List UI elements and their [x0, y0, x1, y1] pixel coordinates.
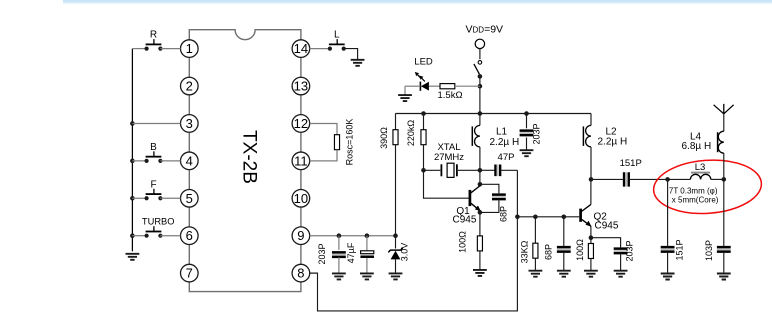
- resistor 1.5kΩ: [440, 84, 455, 89]
- junction: [478, 210, 483, 215]
- label 100Ω: [458, 231, 468, 253]
- svg-text:7T 0.3mm (φ): 7T 0.3mm (φ): [669, 187, 718, 196]
- svg-text:151P: 151P: [675, 239, 685, 260]
- wire Rosc to pin 11: [310, 150, 337, 161]
- transistor Q2 C945: [581, 204, 592, 226]
- junction: [524, 111, 529, 116]
- svg-text:14: 14: [294, 41, 308, 56]
- wire key TURBO to pin 6: [160, 235, 180, 237]
- capacitor 47µF electrolytic: [360, 251, 374, 257]
- label C945 (Q1): [453, 214, 477, 225]
- pushbutton TURBO: [142, 217, 175, 238]
- capacitor 203P (pin9): [332, 252, 346, 257]
- wire: [563, 217, 565, 247]
- wire: [620, 253, 622, 270]
- label 203P: [317, 243, 327, 264]
- wire: [479, 251, 481, 270]
- capacitor 151P (coupling): [624, 172, 629, 186]
- label 6.8µH: [682, 141, 712, 152]
- svg-text:LED: LED: [414, 56, 433, 67]
- capacitor 151P (shunt): [661, 247, 675, 252]
- wire: [423, 114, 425, 130]
- svg-text:100Ω: 100Ω: [575, 239, 585, 261]
- ground (151P): [661, 274, 675, 280]
- ground (203P Q2): [614, 271, 628, 277]
- label 203P: [532, 123, 542, 144]
- svg-text:L3: L3: [695, 162, 706, 173]
- label 68P: [544, 244, 554, 260]
- LED D1: [415, 72, 429, 91]
- junction: [533, 215, 538, 220]
- resistor Rosc=160K: [334, 135, 339, 150]
- wire: [479, 147, 481, 170]
- zener diode 3.0V: [388, 248, 402, 273]
- svg-text:10: 10: [294, 191, 308, 206]
- ground (Q2 emitter): [584, 271, 598, 277]
- svg-text:1.5kΩ: 1.5kΩ: [438, 90, 463, 101]
- label 2.2µH: [490, 137, 520, 148]
- wire collector node: [479, 170, 481, 184]
- wire: [590, 259, 592, 271]
- wire: [479, 114, 481, 126]
- ground (Q1 emitter): [473, 270, 487, 276]
- label XTAL: [437, 142, 460, 153]
- label 220kΩ: [406, 120, 416, 147]
- svg-text:103P: 103P: [704, 240, 714, 261]
- wire: [723, 114, 725, 131]
- svg-text:220kΩ: 220kΩ: [406, 120, 416, 147]
- junction: [478, 182, 483, 187]
- wire: [668, 178, 691, 180]
- IC U1 TX-2B body outline with pin-1 notch: [189, 30, 301, 292]
- junction: [365, 233, 370, 238]
- resistor 390Ω: [393, 130, 398, 145]
- inductor L3: [690, 173, 710, 180]
- label 390Ω: [379, 127, 389, 149]
- wire key F to pin 5: [160, 197, 180, 199]
- resistor 100Ω (Q1): [477, 236, 482, 251]
- label LED: [414, 56, 433, 67]
- junction: [421, 168, 426, 173]
- wire: [534, 217, 536, 243]
- svg-text:Rosc=160K: Rosc=160K: [345, 119, 355, 166]
- svg-text:12: 12: [294, 116, 308, 131]
- wire Q2 emitter: [590, 226, 592, 238]
- junction: [130, 233, 135, 238]
- ground (LED): [398, 95, 412, 101]
- wire pin 8 to oscillator node: [310, 170, 518, 311]
- wire: [479, 49, 481, 60]
- junction: [130, 159, 135, 164]
- wire: [480, 169, 496, 171]
- capacitor 68P (Q2 base): [557, 247, 571, 252]
- svg-text:47µF: 47µF: [346, 242, 356, 263]
- label 68P: [499, 206, 509, 222]
- label Q1: [456, 206, 470, 217]
- ground (103P): [717, 274, 731, 280]
- label L1: [496, 127, 508, 138]
- svg-text:203P: 203P: [317, 243, 327, 264]
- wire bus to pin 3: [132, 122, 180, 124]
- wire: [500, 169, 517, 171]
- junction: [478, 168, 483, 173]
- junction: [130, 196, 135, 201]
- IC pin 5: [181, 189, 199, 207]
- wire: [723, 179, 725, 247]
- IC label TX-2B: [239, 130, 260, 184]
- wire pin 12 to Rosc: [310, 123, 337, 134]
- svg-text:TURBO: TURBO: [142, 217, 175, 227]
- wire Q2 collector: [590, 179, 592, 204]
- svg-text:TX-2B: TX-2B: [239, 130, 260, 184]
- capacitor 203P (rail): [520, 131, 534, 136]
- wire pin 9 node: [310, 235, 396, 237]
- svg-text:C945: C945: [595, 220, 619, 231]
- label 1.5kΩ: [438, 90, 463, 101]
- svg-text:6: 6: [186, 228, 193, 243]
- pushbutton F: [145, 179, 163, 200]
- wire: [711, 178, 724, 180]
- capacitor 47P: [495, 165, 500, 177]
- label Q2: [594, 212, 608, 223]
- junction: [478, 84, 483, 89]
- svg-text:3: 3: [186, 116, 193, 131]
- capacitor 103P: [717, 247, 731, 252]
- wire bus to key TURBO: [132, 235, 146, 237]
- label L4: [690, 131, 702, 142]
- svg-text:7: 7: [186, 266, 193, 281]
- capacitor 203P (Q2): [614, 249, 628, 254]
- svg-text:27MHz: 27MHz: [434, 152, 464, 163]
- resistor 220kΩ: [421, 130, 426, 145]
- wire XTAL node to Q1 base: [424, 170, 469, 198]
- ground (68P Q2): [557, 271, 571, 277]
- wire: [526, 114, 528, 129]
- wire: [534, 258, 536, 270]
- junction: [515, 215, 520, 220]
- capacitor 68P (Q1): [492, 195, 506, 200]
- junction: [130, 121, 135, 126]
- IC pin 8: [292, 264, 310, 282]
- wire resistor to VDD line: [455, 85, 480, 87]
- IC pin 3: [181, 115, 199, 133]
- wire LED anode: [429, 85, 440, 87]
- svg-text:3.0V: 3.0V: [400, 243, 410, 262]
- inductor L2 2.2µH: [583, 125, 591, 146]
- svg-text:203P: 203P: [532, 123, 542, 144]
- label VDD=9V: [466, 24, 504, 36]
- IC pin 2: [181, 77, 199, 95]
- key common bus wire: [131, 49, 133, 252]
- wire key R to pin 1: [160, 48, 180, 50]
- wire rail corner to L2: [590, 114, 592, 126]
- svg-text:11: 11: [294, 153, 308, 168]
- wire key L to ground: [344, 49, 358, 60]
- wire: [423, 145, 425, 171]
- wire LED cathode to ground: [405, 86, 420, 95]
- pushbutton B: [145, 142, 163, 163]
- wire: [395, 114, 397, 130]
- svg-text:8: 8: [297, 266, 304, 281]
- wire: [667, 179, 669, 247]
- svg-text:68P: 68P: [544, 244, 554, 260]
- inductor L4 6.8µH: [718, 131, 724, 153]
- label 33KΩ: [520, 240, 530, 263]
- wire: [366, 236, 368, 251]
- svg-text:151P: 151P: [620, 158, 642, 169]
- wire switch to rail: [479, 76, 481, 113]
- ground (zener): [389, 273, 403, 279]
- pushbutton R: [145, 30, 163, 51]
- IC pin 14: [292, 40, 310, 58]
- wire base branch: [517, 216, 579, 218]
- ground (203P pin9): [332, 273, 346, 279]
- svg-text:47P: 47P: [498, 152, 515, 163]
- svg-text:100Ω: 100Ω: [458, 231, 468, 253]
- label 203P: [625, 240, 635, 261]
- svg-text:13: 13: [294, 79, 308, 94]
- svg-text:x 5mm(Core): x 5mm(Core): [672, 195, 719, 204]
- wire emitter node: [479, 211, 481, 213]
- wire pin 14 to key L: [310, 48, 330, 50]
- svg-text:1: 1: [186, 41, 193, 56]
- wire: [723, 252, 725, 273]
- svg-text:5: 5: [186, 191, 193, 206]
- pushbutton L: [328, 30, 346, 51]
- label L2: [606, 126, 618, 137]
- wire: [479, 212, 481, 236]
- svg-text:390Ω: 390Ω: [379, 127, 389, 149]
- annotation ellipse (red): [652, 157, 763, 217]
- wire: [563, 252, 565, 271]
- resistor 33KΩ: [533, 243, 538, 258]
- inductor L1 2.2µH: [472, 125, 480, 146]
- label 27MHz: [434, 152, 464, 163]
- label 7T 0.3mm (Φ): [669, 187, 718, 196]
- wire: [630, 178, 668, 180]
- wire: [395, 236, 397, 249]
- label 151P: [675, 239, 685, 260]
- wire bus to key B: [132, 160, 146, 162]
- label 3.0V: [400, 243, 410, 262]
- svg-text:9: 9: [297, 228, 304, 243]
- junction: [665, 177, 670, 182]
- wire key B to pin 4: [160, 160, 180, 162]
- IC pin 11: [292, 152, 310, 170]
- label 47P: [498, 152, 515, 163]
- wire: [591, 178, 623, 180]
- wire: [590, 238, 592, 244]
- power switch: [474, 61, 482, 79]
- IC pin 10: [292, 189, 310, 207]
- svg-text:C945: C945: [453, 214, 477, 225]
- svg-text:VDD=9V: VDD=9V: [466, 24, 504, 36]
- junction: [722, 177, 727, 182]
- svg-text:B: B: [150, 142, 157, 153]
- label 151P: [620, 158, 642, 169]
- wire bus to key R: [132, 48, 146, 50]
- IC pin 4: [181, 152, 199, 170]
- wire: [667, 252, 669, 273]
- svg-text:4: 4: [186, 153, 193, 168]
- label Rosc=160K: [345, 119, 355, 166]
- antenna: [714, 104, 734, 114]
- wire: [723, 153, 725, 179]
- svg-text:33KΩ: 33KΩ: [520, 240, 530, 263]
- ground (47µF): [360, 273, 374, 279]
- svg-text:2: 2: [186, 79, 193, 94]
- VDD rail wire: [396, 113, 592, 115]
- svg-text:2.2µ H: 2.2µ H: [490, 137, 520, 148]
- wire: [395, 145, 397, 236]
- ground (33K): [529, 271, 543, 277]
- IC pin 7: [181, 264, 199, 282]
- svg-text:6.8µ H: 6.8µ H: [682, 141, 712, 152]
- junction: [589, 177, 594, 182]
- wire: [366, 258, 368, 273]
- label 47µF: [346, 242, 356, 263]
- label 2.2µH: [598, 137, 628, 148]
- wire: [526, 138, 528, 151]
- IC pin 6: [181, 227, 199, 245]
- wire: [480, 201, 499, 213]
- junction: [589, 235, 594, 240]
- junction: [337, 233, 342, 238]
- crystal XTAL 27MHz: [424, 163, 480, 177]
- label L3: [695, 162, 706, 173]
- label C945 (Q2): [595, 220, 619, 231]
- transistor Q1 C945: [470, 186, 481, 212]
- wire: [480, 184, 499, 193]
- junction: [393, 233, 398, 238]
- IC pin 13: [292, 77, 310, 95]
- IC pin 12: [292, 115, 310, 133]
- svg-text:203P: 203P: [625, 240, 635, 261]
- IC pin 9: [292, 227, 310, 245]
- wire: [338, 257, 340, 273]
- wire bus to key F: [132, 197, 146, 199]
- wire: [590, 147, 592, 180]
- label 100Ω: [575, 239, 585, 261]
- wire: [591, 238, 621, 248]
- junction: [478, 111, 483, 116]
- svg-text:L: L: [334, 30, 340, 41]
- ground (key L): [351, 60, 365, 66]
- svg-text:2.2µ H: 2.2µ H: [598, 137, 628, 148]
- terminal VDD: [475, 39, 484, 48]
- label 103P: [704, 240, 714, 261]
- svg-text:68P: 68P: [499, 206, 509, 222]
- svg-text:R: R: [150, 30, 157, 41]
- label x 5mm(Core): [672, 195, 719, 204]
- IC pin 1: [181, 40, 199, 58]
- ground (203P rail): [520, 150, 534, 156]
- junction: [562, 215, 567, 220]
- junction: [421, 111, 426, 116]
- wire: [338, 236, 340, 250]
- svg-text:F: F: [150, 179, 156, 190]
- ground (key bus): [126, 254, 140, 260]
- resistor 100Ω (Q2): [588, 244, 593, 259]
